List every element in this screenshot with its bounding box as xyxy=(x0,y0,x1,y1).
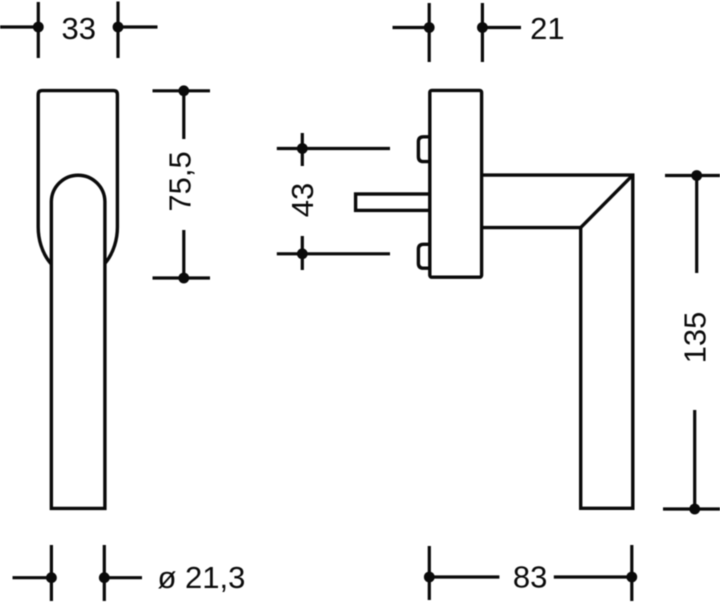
dim 43: top tick xyxy=(301,133,304,166)
svg-text:ø 21,3: ø 21,3 xyxy=(158,560,246,595)
dim 33: left extension wire xyxy=(0,25,44,28)
rosette side view (rectangle) xyxy=(430,90,482,277)
dim o21,3: left tick xyxy=(50,545,53,601)
dim 135: lower vertical segment xyxy=(693,410,696,509)
spindle side view xyxy=(356,194,430,210)
svg-text:135: 135 xyxy=(677,312,712,364)
dim 43: top node dot xyxy=(297,143,308,154)
grip front view (handle bar, stadium shape) xyxy=(51,175,105,508)
dim 43: bottom tick xyxy=(301,236,304,270)
dim 21: right tick xyxy=(481,3,484,62)
svg-text:43: 43 xyxy=(285,183,320,217)
dim 83: right node dot xyxy=(626,572,637,583)
dim 21: right wire xyxy=(478,26,521,29)
dim 21: right node dot xyxy=(477,22,488,33)
dim 43: bottom wire xyxy=(277,252,390,255)
dim 83: right wire xyxy=(554,575,632,578)
dim 33: right node dot xyxy=(113,22,124,33)
dim 83: right tick xyxy=(630,545,633,601)
lever bend miter line xyxy=(581,175,633,228)
dim 21: left tick xyxy=(428,3,431,62)
dim 33: right tick xyxy=(116,2,119,59)
dim 75,5: top node dot xyxy=(178,85,189,96)
dim 33: right extension wire xyxy=(113,25,158,28)
svg-text:21: 21 xyxy=(530,11,564,46)
dim 135: bottom wire xyxy=(663,507,720,510)
dim 43: bottom node dot xyxy=(297,248,308,259)
dim o21,3: left node dot xyxy=(46,572,57,583)
rosette front view (left view backplate with rounded bottom) xyxy=(38,91,117,277)
dim o21,3: right tick xyxy=(103,545,106,601)
svg-text:33: 33 xyxy=(61,11,95,46)
dim 43: top wire xyxy=(277,147,390,150)
dim 75,5: bottom node dot xyxy=(178,273,189,284)
dim 83: left tick xyxy=(428,546,431,600)
svg-text:83: 83 xyxy=(513,560,547,595)
dim 75,5: bottom wire xyxy=(153,276,211,279)
handle lever side view (neck and down bar) xyxy=(482,175,633,508)
dim o21,3: right wire xyxy=(101,576,142,579)
dim o21,3: left wire xyxy=(13,576,56,579)
dim 75,5: lower vertical segment xyxy=(182,230,185,278)
dim 135: top wire xyxy=(665,174,720,177)
dim 135: bottom node dot xyxy=(689,504,700,515)
dim 33: left tick xyxy=(37,2,40,58)
bottom fixing lug side view xyxy=(418,244,432,268)
dim 75,5: top wire xyxy=(153,89,211,92)
dim 135: upper vertical segment xyxy=(695,176,698,274)
dim 83: left wire xyxy=(429,575,499,578)
dim o21,3: right node dot xyxy=(99,572,110,583)
dim 135: top node dot xyxy=(691,170,702,181)
dim 21: left node dot xyxy=(424,22,435,33)
dim 75,5: upper vertical segment xyxy=(182,91,185,139)
dim 33: left node dot xyxy=(33,22,44,33)
top fixing lug side view xyxy=(418,137,432,162)
dim 21: left wire xyxy=(393,26,434,29)
dim 83: left node dot xyxy=(424,572,435,583)
svg-text:75,5: 75,5 xyxy=(163,151,198,211)
